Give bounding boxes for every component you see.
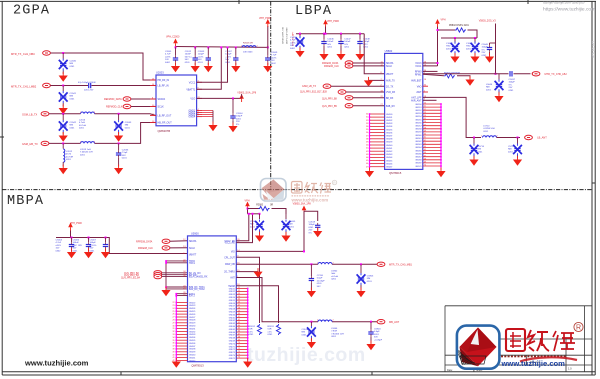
svg-text:GND31: GND31 [189, 328, 195, 330]
svg-text:GND55: GND55 [229, 300, 235, 302]
svg-text:QM78015: QM78015 [389, 171, 402, 175]
svg-text:24: 24 [173, 308, 175, 310]
svg-text:46: 46 [366, 163, 368, 165]
wire rail to VBATT pin [364, 34, 384, 74]
capacitor C2012 [194, 46, 196, 48]
wire power rail [296, 33, 364, 35]
svg-text:GND52: GND52 [415, 110, 421, 112]
svg-text:100pF: 100pF [482, 47, 489, 49]
section divider horizontal dash-dot [2, 189, 592, 191]
capacitor C1447 [340, 33, 342, 35]
svg-text:100nF: 100nF [344, 41, 351, 43]
wire VCC3/VCC1 to VPH [423, 26, 438, 66]
svg-text:50: 50 [424, 103, 426, 105]
junction [62, 113, 64, 115]
svg-text:C5001: C5001 [250, 221, 257, 223]
svg-text:0201: 0201 [331, 336, 337, 338]
svg-text:0R: 0R [270, 205, 273, 207]
svg-text:GND60: GND60 [415, 135, 421, 137]
svg-text:0201: 0201 [317, 283, 323, 285]
svg-text:52: 52 [424, 109, 426, 111]
svg-text:0201: 0201 [125, 127, 131, 129]
svg-text:NM: NM [302, 332, 306, 334]
svg-text:x20%: x20% [165, 56, 171, 58]
svg-text:32: 32 [173, 331, 175, 333]
ground [101, 249, 110, 259]
svg-text:MBPA: MBPA [7, 194, 44, 209]
capacitor C2036 [118, 143, 120, 150]
svg-text:LB_ANT: LB_ANT [537, 137, 547, 140]
svg-text:70: 70 [424, 165, 426, 167]
ground [450, 53, 459, 63]
svg-text:0201: 0201 [483, 131, 489, 133]
svg-text:RFFE08_DATA: RFFE08_DATA [136, 240, 153, 243]
capacitor C5040 [490, 42, 496, 44]
wire GSM_HB_TX row [49, 142, 81, 144]
wire output row CH0_LB2 [423, 73, 509, 75]
svg-text:SCLK: SCLK [189, 248, 195, 250]
svg-text:60: 60 [424, 134, 426, 136]
svg-text:0402: 0402 [56, 250, 62, 252]
svg-text:EXT2: EXT2 [189, 296, 195, 298]
svg-text:www.tuzhijie.com: www.tuzhijie.com [291, 197, 329, 202]
svg-text:40: 40 [366, 145, 368, 147]
svg-text:GND55: GND55 [415, 119, 421, 121]
svg-text:25V: 25V [482, 52, 486, 54]
svg-text:GND42: GND42 [386, 151, 392, 153]
svg-text:GND27: GND27 [189, 317, 195, 319]
port MTR_TX_CH0_MB1 [377, 262, 385, 266]
svg-text:VPH_PWR: VPH_PWR [259, 17, 271, 20]
svg-text:GND46: GND46 [386, 163, 392, 165]
svg-text:71: 71 [238, 345, 240, 347]
svg-text:GND30: GND30 [189, 326, 195, 328]
ground [253, 268, 262, 278]
svg-text:GSM_HB_TX: GSM_HB_TX [22, 142, 38, 146]
svg-text:U5800: U5800 [385, 49, 393, 53]
svg-text:C2009: C2009 [271, 52, 278, 54]
svg-text:NM: NM [70, 96, 74, 98]
capacitor C2040 (DNP) [59, 59, 68, 71]
svg-text:47p 100pF C2008: 47p 100pF C2008 [78, 82, 96, 84]
wire RFW_NB output row [236, 263, 318, 265]
junction [118, 113, 120, 115]
svg-text:L2016: L2016 [79, 120, 86, 122]
svg-text:0201: 0201 [70, 98, 76, 100]
port MB_ANT [377, 320, 385, 324]
capacitor C5001 (DNP) [259, 213, 261, 215]
ground [440, 168, 442, 170]
capacitor C2009 [267, 47, 269, 55]
ground [172, 358, 181, 368]
svg-text:GND66: GND66 [229, 332, 235, 334]
svg-text:tuzhijie.com: tuzhijie.com [247, 344, 366, 366]
svg-text:40.7nH: 40.7nH [79, 125, 86, 127]
svg-text:5%: 5% [482, 49, 485, 51]
resistor R2006 [242, 46, 256, 48]
wire RFW0 [423, 70, 438, 72]
svg-text:30: 30 [173, 325, 175, 327]
svg-text:GND66: GND66 [415, 153, 421, 155]
svg-text:C2110: C2110 [317, 275, 324, 277]
svg-text:68: 68 [424, 158, 426, 160]
resistor R5912 [257, 324, 261, 335]
svg-text:GND43: GND43 [386, 154, 392, 156]
svg-text:34: 34 [366, 126, 368, 128]
svg-text:41: 41 [173, 357, 175, 359]
capacitor C5904 [370, 321, 372, 323]
svg-text:C2042: C2042 [70, 122, 77, 124]
wire CPL_OUT to R5912 [236, 257, 259, 323]
svg-text:25V: 25V [509, 87, 513, 89]
svg-text:C2041: C2041 [70, 93, 77, 95]
svg-text:GND33: GND33 [386, 123, 392, 125]
svg-text:10V: 10V [271, 60, 275, 62]
svg-text:100pF: 100pF [309, 224, 316, 226]
svg-text:GND54: GND54 [229, 297, 235, 299]
svg-text:38: 38 [173, 349, 175, 351]
svg-text:C2108: C2108 [309, 222, 316, 224]
svg-text:C2001: C2001 [165, 51, 172, 53]
ground [263, 63, 272, 73]
svg-text:NM: NM [70, 63, 74, 65]
svg-text:100pF: 100pF [236, 116, 243, 118]
svg-text:R5802 DNP/L 0201: R5802 DNP/L 0201 [449, 25, 470, 27]
svg-text:GND31: GND31 [386, 117, 392, 119]
svg-text:0201: 0201 [236, 118, 242, 120]
svg-text:GND68: GND68 [229, 338, 235, 340]
svg-text:L5710: L5710 [483, 126, 490, 128]
svg-text:GND32: GND32 [189, 331, 195, 333]
svg-text:GND67: GND67 [415, 157, 421, 159]
wire VCC1_R0 [236, 214, 252, 243]
svg-text:0201: 0201 [79, 128, 85, 130]
svg-text:C5004: C5004 [56, 240, 63, 242]
svg-text:57: 57 [424, 124, 426, 126]
LBPA left GND ladder [369, 114, 371, 168]
svg-text:70: 70 [238, 342, 240, 344]
svg-text:tuzhijie-tuzhijie.com dzltu pc: tuzhijie-tuzhijie.com dzltu pcb [543, 0, 585, 4]
svg-text:RFW_NB: RFW_NB [225, 264, 235, 266]
capacitor C5717 (DNP) [517, 137, 519, 139]
svg-text:GND38: GND38 [189, 349, 195, 351]
svg-text:100nF: 100nF [327, 41, 334, 43]
svg-text:39: 39 [173, 351, 175, 353]
watermark logo center [261, 179, 337, 203]
svg-text:0201: 0201 [344, 47, 350, 49]
capacitor C1077 (DNP) [454, 37, 456, 39]
svg-text:74: 74 [238, 354, 240, 356]
svg-text:AWT: AWT [416, 91, 422, 94]
svg-text:GND40: GND40 [189, 355, 195, 357]
capacitor C2007 [235, 46, 237, 48]
svg-text:GND32: GND32 [386, 120, 392, 122]
svg-text:2G_THRU: 2G_THRU [224, 272, 235, 274]
svg-text:65: 65 [238, 328, 240, 330]
svg-text:B8_RX: B8_RX [386, 98, 394, 100]
wire VCC rail [248, 213, 260, 215]
svg-text:V1O: V1O [190, 98, 195, 101]
svg-text:GND38: GND38 [386, 139, 392, 141]
svg-text:GND64: GND64 [415, 147, 421, 149]
svg-text:50V: 50V [317, 286, 321, 288]
section divider vertical dash-dot [270, 1, 272, 189]
svg-text:42: 42 [366, 151, 368, 153]
svg-text:0201: 0201 [374, 334, 380, 336]
svg-text:69: 69 [424, 162, 426, 164]
svg-text:23: 23 [173, 305, 175, 307]
ground [67, 249, 76, 259]
svg-text:VPH_PWR: VPH_PWR [70, 222, 82, 225]
svg-text:68: 68 [238, 336, 240, 338]
capacitor C1080 (DNP) [474, 37, 476, 39]
svg-text:67: 67 [424, 155, 426, 157]
wire [62, 53, 64, 59]
svg-text:R2006 0R: R2006 0R [243, 43, 253, 45]
inductor L2012 (shunt) [62, 143, 64, 148]
svg-text:16V: 16V [344, 44, 348, 46]
svg-text:GND64: GND64 [229, 326, 235, 328]
svg-text:QLN_PRX_B1_B4: QLN_PRX_B1_B4 [121, 277, 141, 279]
wire 2G_THRU to ground [236, 271, 258, 273]
ground [114, 165, 123, 175]
svg-text:C2043: C2043 [125, 122, 132, 124]
svg-text:100pF: 100pF [225, 54, 232, 56]
svg-text:GND51: GND51 [229, 288, 235, 290]
wire ANT_LPF to LB_ANT [423, 97, 481, 137]
wire NBU to U2003 HB_RF_IN [50, 53, 156, 80]
svg-text:5%: 5% [509, 84, 512, 86]
svg-text:U2003: U2003 [156, 71, 164, 75]
capacitor C5716 (DNP) [473, 137, 475, 139]
capacitor C2004 [232, 98, 234, 113]
svg-text:C2007: C2007 [225, 51, 232, 53]
svg-text:0201: 0201 [122, 158, 128, 160]
svg-text:SCLK: SCLK [386, 66, 392, 68]
svg-text:RFW1: RFW1 [415, 74, 422, 76]
svg-text:34: 34 [173, 337, 175, 339]
svg-text:0201: 0201 [446, 48, 452, 50]
svg-text:RFFE06_CLK: RFFE06_CLK [324, 65, 339, 68]
svg-text:55: 55 [424, 118, 426, 120]
svg-text:NM: NM [125, 125, 129, 127]
svg-text:B34_RX_TRX2: B34_RX_TRX2 [189, 289, 205, 291]
svg-text:TBD: TBD [446, 46, 451, 48]
svg-text:0201: 0201 [466, 48, 472, 50]
svg-text:7.8nH: 7.8nH [331, 331, 337, 333]
svg-text:GND69: GND69 [229, 341, 235, 343]
svg-text:0201: 0201 [508, 151, 514, 153]
svg-text:MTR_2G_APT: MTR_2G_APT [591, 41, 595, 58]
svg-text:51R: 51R [268, 329, 272, 331]
svg-text:0201: 0201 [302, 334, 308, 336]
svg-text:VIO: VIO [231, 252, 235, 254]
wire TERM to R5911 [236, 286, 278, 323]
svg-text:2GPA: 2GPA [13, 4, 50, 19]
svg-text:GND39: GND39 [386, 142, 392, 144]
svg-text:GND53: GND53 [415, 113, 421, 115]
svg-text:10V: 10V [56, 248, 60, 250]
svg-text:38: 38 [366, 138, 368, 140]
svg-text:73: 73 [238, 351, 240, 353]
svg-text:QLN_PRX_B12_B17_B28: QLN_PRX_B12_B17_B28 [300, 92, 328, 94]
svg-text:C2004: C2004 [236, 113, 243, 115]
svg-text:4T26: 4T26 [66, 154, 72, 156]
svg-text:GND62: GND62 [229, 320, 235, 322]
svg-text:GND60: GND60 [229, 314, 235, 316]
svg-text:0402: 0402 [290, 48, 296, 50]
svg-text:0201: 0201 [66, 159, 72, 161]
svg-text:3nH: 3nH [331, 273, 335, 275]
svg-text:LB_RF_OUT: LB_RF_OUT [158, 115, 172, 118]
pin stub VAO [423, 85, 428, 87]
svg-text:GND37: GND37 [189, 346, 195, 348]
power net VPH (right) [435, 19, 440, 27]
svg-text:NM: NM [70, 125, 74, 127]
capacitor C2008 series [89, 83, 91, 88]
ground on AVR_TX [369, 79, 385, 81]
svg-text:50V: 50V [73, 248, 77, 250]
svg-text:100nF: 100nF [185, 54, 192, 56]
wire REFMOD_CLK [131, 106, 156, 108]
inductor L5906 [318, 320, 332, 322]
svg-text:+0.05pF: +0.05pF [374, 339, 383, 341]
MBPA right GND ladder [247, 289, 249, 361]
svg-text:72: 72 [238, 348, 240, 350]
capacitor C5006 [88, 237, 90, 239]
svg-text:x10%: x10% [198, 56, 204, 58]
wire REFMOD_DATA [131, 98, 156, 100]
svg-text:58: 58 [424, 127, 426, 129]
capacitor C5037 series [510, 71, 512, 76]
svg-text:NM: NM [478, 149, 482, 151]
svg-text:U5900: U5900 [191, 232, 199, 236]
svg-text:29: 29 [173, 322, 175, 324]
svg-text:0.4pF: 0.4pF [374, 331, 380, 333]
svg-text:37: 37 [366, 135, 368, 137]
logo bottom right [455, 326, 499, 369]
svg-text:LBPA: LBPA [295, 4, 332, 19]
svg-text:50V: 50V [327, 44, 331, 46]
svg-text:GND52: GND52 [229, 291, 235, 293]
svg-text:GND71: GND71 [229, 346, 235, 348]
ground [307, 288, 316, 298]
svg-text:GND35: GND35 [386, 129, 392, 131]
svg-text:GND50: GND50 [415, 104, 421, 106]
svg-text:16V: 16V [290, 45, 294, 47]
ground [470, 53, 479, 63]
svg-text:69: 69 [238, 339, 240, 341]
svg-text:GND26: GND26 [189, 314, 195, 316]
svg-text:57: 57 [238, 305, 240, 307]
svg-text:VVR_RX: VVR_RX [386, 92, 396, 94]
ground [243, 358, 252, 368]
svg-text:x1%: x1% [268, 331, 272, 333]
svg-text:L5906: L5906 [331, 328, 338, 330]
wire V1O net [197, 97, 242, 99]
svg-text:62: 62 [238, 319, 240, 321]
svg-text:VCC1: VCC1 [189, 81, 196, 84]
svg-text:GND41: GND41 [386, 148, 392, 150]
svg-text:7.04545 1nH: 7.04545 1nH [80, 152, 93, 154]
svg-text:VPH_C2000: VPH_C2000 [166, 36, 180, 39]
resistor R5911 [276, 324, 280, 335]
svg-text:AVR_TX: AVR_TX [386, 80, 395, 83]
svg-text:DNP 4.7uF GRM: DNP 4.7uF GRM [287, 27, 289, 44]
capacitor C5007 [105, 237, 107, 239]
svg-text:0201: 0201 [185, 62, 191, 64]
ground [319, 51, 328, 61]
ground [59, 72, 68, 82]
svg-text:C1080: C1080 [466, 43, 473, 45]
wire GSM_LB_TX row [49, 113, 81, 115]
wire [62, 86, 64, 92]
svg-text:GND30: GND30 [386, 114, 392, 116]
svg-text:40.74H: 40.74H [66, 156, 73, 158]
svg-text:V5803_36A_1P8: V5803_36A_1P8 [293, 203, 312, 206]
wire GND pins to ground [202, 111, 213, 117]
svg-text:4.7nH: 4.7nH [79, 122, 85, 124]
wire LMB row [50, 85, 88, 87]
svg-text:50V: 50V [185, 59, 189, 61]
svg-text:GND56: GND56 [415, 122, 421, 124]
pin stub AWT [423, 91, 428, 93]
svg-text:RFW0: RFW0 [415, 72, 422, 74]
svg-text:x/-10%: x/-10% [90, 245, 97, 247]
svg-text:GND57: GND57 [229, 306, 235, 308]
junction [62, 52, 64, 54]
svg-text:NM: NM [486, 87, 490, 89]
svg-text:0201: 0201 [70, 66, 76, 68]
svg-text:MTR_TX_CH1_LMB2: MTR_TX_CH1_LMB2 [11, 84, 37, 88]
svg-text:GND29: GND29 [189, 323, 195, 325]
svg-text:100nF: 100nF [73, 242, 80, 244]
svg-text:QM78013: QM78013 [191, 364, 204, 368]
svg-text:30: 30 [366, 114, 368, 116]
svg-text:VBATT1: VBATT1 [186, 88, 196, 91]
svg-text:C1077: C1077 [446, 43, 453, 45]
svg-text:GND56: GND56 [229, 303, 235, 305]
svg-text:C5006: C5006 [73, 240, 80, 242]
capacitor C2042 (DNP) [59, 120, 68, 132]
svg-text:GSM_LB_TX: GSM_LB_TX [302, 85, 316, 88]
svg-text:www.tuzhijie.com: www.tuzhijie.com [24, 359, 89, 368]
svg-text:VBATT: VBATT [386, 73, 394, 76]
svg-text:0201: 0201 [309, 227, 315, 229]
ground [281, 232, 290, 242]
capacitor C2003 [207, 46, 209, 48]
svg-text:HB_RF_IN: HB_RF_IN [158, 79, 170, 82]
svg-text:GND63: GND63 [229, 323, 235, 325]
svg-text:47: 47 [366, 166, 368, 168]
svg-text:66: 66 [238, 331, 240, 333]
svg-text:L5902: L5902 [331, 271, 338, 273]
ground [336, 51, 345, 61]
svg-text:100pF: 100pF [198, 54, 205, 56]
ground [59, 105, 68, 115]
ground [369, 168, 371, 170]
capacitor C2110 [310, 263, 312, 265]
svg-text:36: 36 [366, 132, 368, 134]
svg-text:NM: NM [508, 149, 512, 151]
svg-text:10V: 10V [165, 59, 169, 61]
svg-text:x20%: x20% [271, 57, 277, 59]
svg-text:51: 51 [424, 106, 426, 108]
ground [465, 76, 474, 86]
ground [84, 249, 93, 259]
svg-text:64: 64 [424, 146, 426, 148]
svg-text:C2003: C2003 [198, 51, 205, 53]
